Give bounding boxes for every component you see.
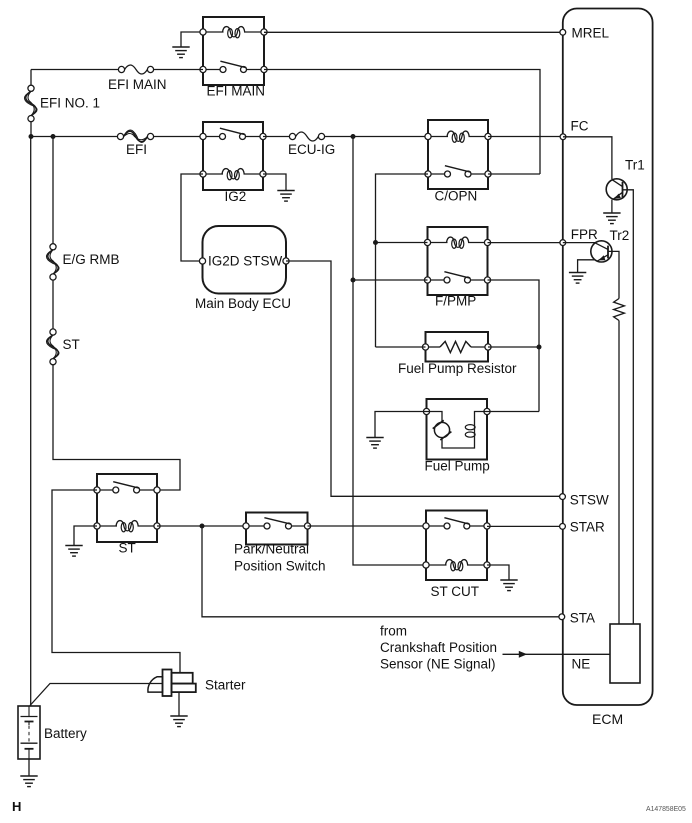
relay EFI MAIN switch: [203, 69, 223, 71]
fuse E/G RMB: [50, 244, 56, 250]
ground (ST relay coil): [65, 545, 82, 547]
park/neutral position switch contacts: [246, 525, 267, 527]
terminal F/PMP coil left: [424, 239, 430, 245]
ground (starter): [170, 715, 187, 717]
terminal C/OPN coil right: [485, 133, 491, 139]
svg-text:Crankshaft Position: Crankshaft Position: [380, 640, 497, 655]
relay ST CUT coil: [426, 564, 447, 566]
wire P/N switch to ST CUT: [308, 525, 427, 527]
svg-text:Main Body ECU: Main Body ECU: [195, 296, 291, 311]
wire ST CUT switch to ECM STAR: [487, 525, 560, 527]
terminal IG2 coil left: [200, 171, 206, 177]
wire Tr2 emitter to ground: [578, 260, 596, 272]
battery plate long bottom: [21, 742, 38, 744]
terminal EFI MAIN switch right: [261, 66, 267, 72]
Main Body ECU box: [203, 226, 287, 294]
svg-text:A147858E05: A147858E05: [646, 806, 686, 813]
wire resistor lead left: [426, 346, 441, 348]
battery plate short bottom: [25, 748, 34, 750]
wire fuel pump right riser bottom: [487, 411, 539, 413]
terminal F/PMP coil right: [484, 239, 490, 245]
node junction STA branch: [200, 524, 205, 529]
fuse EFI MAIN: [118, 66, 124, 72]
svg-text:Park/Neutral: Park/Neutral: [234, 542, 309, 557]
ground (IG2 relay coil): [277, 190, 294, 192]
terminal resistor left: [422, 344, 428, 350]
wire Tr1 emitter to ground: [611, 200, 613, 213]
terminal ST coil left: [94, 523, 100, 529]
wire NE signal: [503, 653, 611, 655]
svg-text:MREL: MREL: [572, 26, 610, 41]
terminal IG2D: [199, 258, 205, 264]
svg-text:ST CUT: ST CUT: [431, 584, 480, 599]
wire relay EFI MAIN output to C/OPN feed riser: [264, 70, 540, 175]
relay IG2 coil: [203, 173, 223, 175]
node junction F/PMP switch feed: [351, 278, 356, 283]
wire x53 riser upper: [52, 137, 54, 244]
svg-text:Fuel Pump: Fuel Pump: [425, 459, 490, 474]
svg-text:Fuel Pump Resistor: Fuel Pump Resistor: [398, 361, 517, 376]
wire fuse EFI MAIN to relay: [154, 69, 203, 71]
resistor (ECM internal): [614, 299, 625, 321]
svg-text:FC: FC: [571, 119, 589, 134]
svg-text:Sensor (NE Signal): Sensor (NE Signal): [380, 657, 496, 672]
terminal F/PMP switch left: [424, 277, 430, 283]
svg-text:ST: ST: [119, 541, 136, 556]
wire fuse EFI NO. 1 to main bus: [30, 122, 32, 137]
wire F/PMP coil to ECM FPR: [488, 242, 563, 244]
wire resistor lead right: [471, 346, 488, 348]
pin FC: [560, 134, 566, 140]
fuse ECU-IG: [289, 133, 295, 139]
terminal P/N left: [243, 523, 249, 529]
node junction main bus x31: [29, 134, 34, 139]
terminal fuel pump right: [484, 408, 490, 414]
wire battery to ground: [28, 759, 30, 776]
wire F/PMP switch to fuel pump riser: [488, 280, 540, 412]
svg-text:ECU-IG: ECU-IG: [288, 142, 335, 157]
terminal C/OPN switch left: [425, 171, 431, 177]
battery cell stem top: [28, 722, 30, 726]
terminal EFI MAIN switch left: [200, 66, 206, 72]
fuel pump coil: [474, 419, 476, 443]
wire battery riser: [30, 137, 32, 707]
svg-text:Tr2: Tr2: [610, 228, 630, 243]
relay F/PMP coil: [428, 242, 448, 244]
svg-text:from: from: [380, 624, 407, 639]
node junction F/PMP coil feed: [373, 240, 378, 245]
fuse ST: [50, 329, 56, 335]
terminal P/N right: [304, 523, 310, 529]
terminal ST CUT coil right: [484, 562, 490, 568]
svg-text:Battery: Battery: [44, 726, 87, 741]
wire C/OPN switch left to F/PMP coil riser: [376, 174, 429, 347]
terminal ST coil right: [154, 523, 160, 529]
wire EFI MAIN coil to ground: [181, 32, 203, 47]
resistor Fuel Pump Resistor box: [426, 332, 489, 362]
svg-text:EFI NO. 1: EFI NO. 1: [40, 96, 100, 111]
battery internal top stub: [28, 706, 30, 717]
wire starter to ground: [178, 692, 180, 715]
node junction resistor to riser: [537, 345, 542, 350]
NE interface block: [610, 624, 640, 683]
terminal fuel pump left: [423, 408, 429, 414]
park/neutral position switch box: [246, 513, 308, 545]
relay IG2 switch: [203, 136, 223, 138]
svg-text:STA: STA: [570, 611, 595, 626]
transistor Tr2 body: [591, 241, 612, 262]
terminal resistor right: [485, 344, 491, 350]
starter bell housing: [148, 677, 163, 692]
fuel pump box: [427, 399, 488, 460]
wire C/OPN coil to ECM FC: [488, 136, 563, 138]
terminal IG2 switch left: [200, 133, 206, 139]
svg-text:IG2D STSW: IG2D STSW: [208, 254, 283, 269]
pin STA: [559, 614, 565, 620]
transistor Tr2 emitter: [598, 255, 609, 261]
battery dashed link: [28, 726, 30, 742]
wire Main Body ECU STSW to ECM STSW: [286, 261, 560, 496]
relay C/OPN coil: [428, 136, 448, 138]
battery plate short top: [25, 721, 34, 723]
fuse EFI: [117, 133, 123, 139]
svg-text:E/G RMB: E/G RMB: [63, 252, 120, 267]
svg-text:C/OPN: C/OPN: [435, 189, 478, 204]
svg-text:ECM: ECM: [592, 711, 623, 727]
wire ST coil to ground: [74, 526, 97, 545]
terminal IG2 coil right: [260, 171, 266, 177]
relay ST switch: [97, 489, 116, 491]
terminal STSW out: [283, 258, 289, 264]
wire ST CUT coil to ground: [487, 565, 509, 580]
svg-text:NE: NE: [572, 657, 591, 672]
svg-text:EFI MAIN: EFI MAIN: [108, 77, 167, 92]
terminal C/OPN coil left: [425, 133, 431, 139]
wire riser to F/PMP switch: [353, 279, 428, 281]
starter body lower: [172, 684, 196, 693]
pin STSW: [560, 494, 566, 500]
ground (Tr2 emitter): [569, 272, 586, 274]
battery case: [18, 706, 40, 759]
wire Tr2 collector to resistor: [608, 251, 619, 298]
ground (ST CUT relay coil): [500, 579, 517, 581]
arrow NE signal: [519, 651, 527, 658]
pin MREL: [560, 29, 566, 35]
wire ST switch to starter: [52, 490, 180, 673]
pin FPR: [560, 240, 566, 246]
wire IG2 coil to ground: [263, 174, 286, 190]
ground (battery): [20, 775, 37, 777]
battery internal bottom stub: [28, 749, 30, 759]
wire Tr1 collector down to NE block: [623, 190, 634, 624]
wire STA line: [202, 526, 559, 617]
wire resistor right to riser: [488, 346, 539, 348]
transistor Tr1 base link: [612, 180, 623, 187]
wire FPR to Tr2 base: [563, 242, 596, 244]
terminal ST switch left: [94, 487, 100, 493]
wire IG2 coil to Main Body ECU: [181, 174, 203, 261]
wire riser corner to resistor left: [376, 346, 426, 348]
svg-text:FPR: FPR: [571, 227, 598, 242]
wire fuse EFI to relay IG2: [154, 136, 203, 138]
wire fuse ST to relay ST switch: [53, 365, 180, 490]
wire fuel pump to ground: [375, 412, 427, 438]
fuse EFI NO. 1: [28, 85, 34, 91]
svg-text:ST: ST: [63, 337, 80, 352]
terminal ST switch right: [154, 487, 160, 493]
svg-text:STSW: STSW: [570, 492, 609, 507]
transistor Tr1 base bar: [622, 182, 624, 199]
starter solenoid flange: [163, 670, 172, 697]
transistor Tr1 body: [606, 179, 627, 200]
transistor Tr1 emitter: [613, 192, 622, 199]
relay ST coil: [97, 525, 117, 527]
relay C/OPN box: [428, 120, 488, 189]
relay ST box: [97, 474, 157, 542]
svg-text:IG2: IG2: [225, 189, 247, 204]
terminal ST CUT switch right: [484, 523, 490, 529]
svg-text:Tr1: Tr1: [625, 158, 645, 173]
ground (fuel pump): [366, 437, 383, 439]
relay EFI MAIN box: [203, 17, 264, 85]
terminal EFI MAIN coil left: [200, 29, 206, 35]
resistor Fuel Pump Resistor element: [440, 341, 471, 352]
relay F/PMP switch: [428, 279, 448, 281]
terminal IG2 switch right: [260, 133, 266, 139]
svg-text:STAR: STAR: [570, 519, 605, 534]
relay ST CUT box: [426, 511, 487, 581]
wire ST coil to park/neutral switch: [157, 525, 246, 527]
terminal EFI MAIN coil right: [261, 29, 267, 35]
ground (Tr1 emitter): [603, 212, 620, 214]
wire between fuses E/G RMB and ST: [52, 280, 54, 329]
svg-text:Position Switch: Position Switch: [234, 559, 326, 574]
wire resistor to NE block: [618, 321, 620, 625]
relay F/PMP box: [428, 227, 488, 295]
ECM module outline: [563, 9, 653, 706]
relay IG2 box: [203, 122, 263, 190]
relay ST CUT switch: [426, 525, 447, 527]
battery plate long top: [21, 716, 38, 718]
relay C/OPN switch: [428, 173, 448, 175]
terminal ST CUT coil left: [423, 562, 429, 568]
wire fuse ECU-IG to C/OPN coil: [325, 136, 428, 138]
terminal C/OPN switch right: [485, 171, 491, 177]
wire riser to fuse EFI NO. 1: [30, 70, 32, 86]
fuel pump motor wiring: [427, 412, 443, 423]
wire MREL: relay EFI MAIN to ECM: [264, 31, 563, 33]
svg-text:Starter: Starter: [205, 678, 246, 693]
wire battery to starter: [30, 684, 163, 706]
starter body upper: [172, 673, 193, 684]
ground (EFI MAIN relay coil): [172, 46, 189, 48]
wire relay IG2 to fuse ECU-IG: [263, 136, 289, 138]
svg-text:F/PMP: F/PMP: [435, 294, 476, 309]
pin STAR: [560, 524, 566, 530]
wire top feed left segment: [31, 69, 118, 71]
node junction bus to ST CUT riser: [351, 134, 356, 139]
transistor Tr2 base bar: [607, 246, 609, 259]
relay EFI MAIN coil: [203, 31, 224, 33]
fuel pump motor: [434, 422, 449, 437]
wire riser to F/PMP coil: [376, 242, 428, 244]
node junction main bus x53: [51, 134, 56, 139]
terminal ST CUT switch left: [423, 523, 429, 529]
transistor Tr2 base link: [596, 243, 608, 249]
svg-text:H: H: [12, 799, 21, 814]
wire bus to fuse EFI: [31, 136, 117, 138]
wire ST CUT riser: [353, 137, 426, 566]
wire C/OPN switch right to feed riser: [488, 173, 540, 175]
svg-text:EFI MAIN: EFI MAIN: [207, 84, 266, 99]
terminal F/PMP switch right: [484, 277, 490, 283]
svg-text:EFI: EFI: [126, 142, 147, 157]
wire FC to Tr1 base: [563, 137, 612, 179]
